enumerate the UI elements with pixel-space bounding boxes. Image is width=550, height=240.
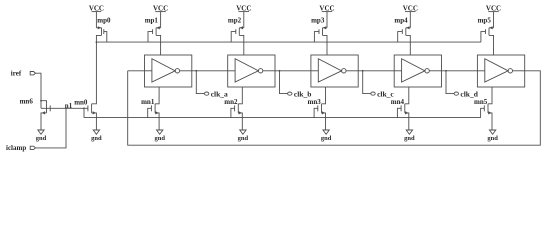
ground under mn2	[240, 130, 246, 134]
op-amp stage U2	[228, 55, 275, 87]
ground under mn3	[323, 130, 329, 134]
wire clk tap clk_b	[280, 71, 288, 94]
wire n1 gate line	[41, 107, 88, 109]
svg-text:mn6: mn6	[20, 97, 34, 105]
ground under mn4	[406, 130, 412, 134]
wire ring feedback	[128, 71, 541, 145]
wire iref to mn6	[35, 73, 41, 108]
svg-text:mn4: mn4	[391, 98, 405, 106]
ground under mn5	[489, 130, 495, 134]
op-amp stage U4	[394, 55, 441, 87]
ground under mn1	[157, 130, 163, 134]
wire stage2 output	[275, 70, 311, 72]
svg-text:mp0: mp0	[97, 16, 111, 24]
wire mn6 drain loop	[41, 101, 47, 104]
svg-text:gnd: gnd	[36, 135, 47, 142]
wire pmos gate bus	[96, 41, 481, 43]
wire stage3 output	[358, 70, 394, 72]
node junction tap4	[445, 70, 447, 72]
wire clk tap clk_d	[446, 71, 454, 94]
node junction pbias diode	[96, 41, 98, 43]
svg-text:mp3: mp3	[311, 16, 325, 24]
transistor mp0	[96, 26, 106, 55]
power VCC (mp2)	[236, 4, 251, 27]
transistor mp5	[481, 26, 494, 55]
ground under mn0	[93, 130, 99, 134]
node junction n1-bus	[83, 107, 85, 109]
node junction tap1	[195, 70, 197, 72]
transistor mn3	[314, 87, 325, 130]
port pin clk_d	[454, 90, 479, 99]
transistor mp1	[148, 26, 161, 55]
op-amp stage U3	[311, 55, 358, 87]
svg-text:gnd: gnd	[238, 135, 249, 142]
transistor mp4	[398, 26, 411, 55]
node junction tap3	[362, 70, 364, 72]
port pin clk_a	[204, 90, 228, 99]
transistor mp3	[314, 26, 327, 55]
wire stage4 output	[442, 70, 478, 72]
wire clk tap clk_c	[363, 71, 371, 94]
svg-text:mp2: mp2	[228, 16, 242, 24]
node junction tap2	[279, 70, 281, 72]
svg-text:iclamp: iclamp	[6, 144, 26, 152]
port pin clk_c	[371, 90, 395, 99]
wire iclamp riser	[35, 108, 66, 148]
svg-text:mn1: mn1	[141, 98, 155, 106]
transistor mn2	[231, 87, 242, 130]
transistor mn5	[481, 87, 492, 130]
port pin iclamp	[6, 144, 35, 152]
svg-text:mn0: mn0	[74, 98, 88, 106]
port pin clk_b	[288, 90, 312, 99]
ground under mn6	[38, 130, 44, 134]
node junction iref-drain	[40, 100, 42, 102]
svg-text:iref: iref	[11, 70, 22, 78]
transistor mn1	[148, 87, 159, 130]
svg-text:mp1: mp1	[145, 16, 159, 24]
svg-text:gnd: gnd	[404, 135, 415, 142]
op-amp stage U5	[477, 55, 524, 87]
svg-text:gnd: gnd	[91, 135, 102, 142]
svg-text:gnd: gnd	[321, 135, 332, 142]
node junction n1-iclamp	[65, 107, 67, 109]
wire clk tap clk_a	[196, 71, 204, 94]
wire n1 to nmos bus	[83, 108, 85, 117]
svg-text:mn3: mn3	[308, 98, 322, 106]
power VCC (mp5)	[486, 4, 501, 27]
op-amp stage U1	[145, 55, 192, 87]
transistor mn4	[397, 87, 408, 130]
transistor mn6	[41, 104, 50, 130]
svg-text:mp4: mp4	[394, 16, 408, 24]
svg-text:gnd: gnd	[487, 135, 498, 142]
power VCC (mp1)	[153, 4, 168, 27]
wire nmos gate bus	[84, 117, 481, 119]
port pin iref	[11, 70, 36, 78]
power VCC (mp0)	[89, 4, 104, 27]
svg-text:mn2: mn2	[224, 98, 238, 106]
power VCC (mp4)	[403, 4, 418, 27]
wire stage1 output	[192, 70, 228, 72]
transistor mn0	[88, 55, 97, 130]
svg-text:mp5: mp5	[478, 16, 492, 24]
svg-text:gnd: gnd	[154, 135, 165, 142]
power VCC (mp3)	[319, 4, 334, 27]
svg-text:mn5: mn5	[474, 98, 488, 106]
transistor mp2	[231, 26, 244, 55]
wire ring input	[128, 70, 145, 72]
